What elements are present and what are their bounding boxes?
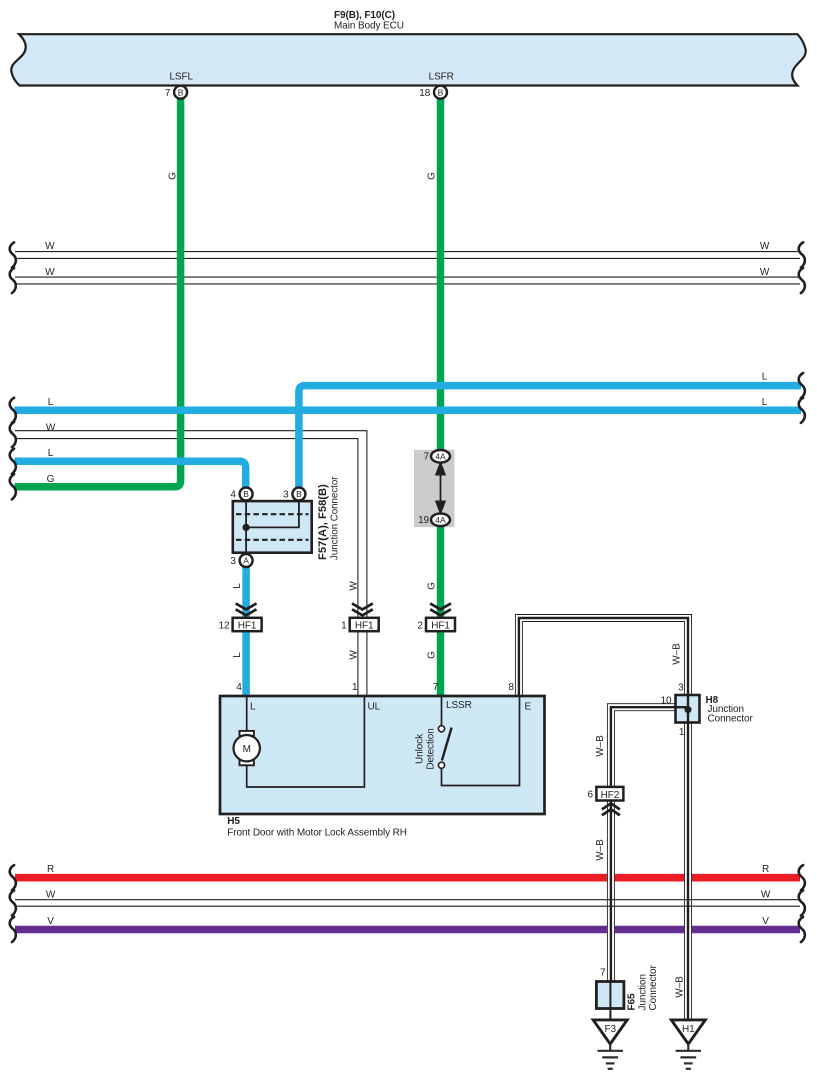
- svg-text:4A: 4A: [435, 515, 446, 525]
- svg-text:L: L: [232, 583, 243, 589]
- svg-text:Detection: Detection: [426, 728, 437, 769]
- svg-text:3: 3: [230, 556, 236, 567]
- junction connector F65: [596, 968, 624, 1020]
- splice HF1 (2): [417, 618, 455, 632]
- svg-text:10: 10: [661, 695, 672, 706]
- svg-text:HF2: HF2: [601, 790, 620, 801]
- svg-text:L: L: [48, 448, 54, 459]
- svg-text:LSSR: LSSR: [446, 700, 472, 711]
- svg-text:F65: F65: [627, 993, 638, 1010]
- pin 3(A) of F57: [230, 554, 252, 567]
- splice HF1 (12): [219, 618, 262, 632]
- splice HF2 (6): [588, 787, 624, 801]
- ground symbol below F3: [598, 1044, 623, 1069]
- svg-text:4: 4: [236, 682, 242, 693]
- svg-text:W–B: W–B: [595, 735, 606, 757]
- svg-text:UL: UL: [368, 702, 381, 713]
- svg-text:L: L: [250, 702, 256, 713]
- connector 4A arrow (between pin 7 and 19): [436, 462, 446, 514]
- svg-text:W: W: [46, 422, 56, 433]
- svg-text:G: G: [168, 172, 179, 180]
- svg-text:W: W: [45, 267, 55, 278]
- svg-text:3: 3: [283, 490, 289, 501]
- motor circuit wire inside door box: [247, 697, 365, 787]
- wire W (top, second): [10, 267, 805, 293]
- svg-text:1: 1: [679, 727, 685, 738]
- svg-text:W: W: [760, 241, 770, 252]
- svg-text:LSFL: LSFL: [169, 72, 193, 83]
- svg-text:L: L: [762, 397, 768, 408]
- wire W-B from door pin 8 (E) up over to H8 then down to H1: [515, 615, 691, 1020]
- svg-text:G: G: [427, 651, 438, 659]
- switch blade: [442, 728, 452, 761]
- svg-text:W: W: [349, 650, 360, 660]
- chevron arrow above HF1 1: [352, 603, 373, 615]
- svg-text:Main Body ECU: Main Body ECU: [334, 20, 404, 31]
- svg-text:G: G: [47, 474, 55, 485]
- pin 7(B) of ECU: [165, 86, 187, 99]
- wire L (upper right cyan, to pin 3B): [299, 371, 805, 489]
- pin 4(B) of F57: [230, 488, 252, 501]
- svg-text:W–B: W–B: [595, 839, 606, 861]
- svg-text:2: 2: [417, 620, 423, 631]
- junction connector H8: [661, 682, 754, 738]
- splice HF1 (1): [341, 618, 379, 632]
- svg-text:Front Door with Motor Lock Ass: Front Door with Motor Lock Assembly RH: [227, 828, 407, 839]
- svg-text:18: 18: [419, 88, 430, 99]
- door lock assembly H5 box: [220, 696, 545, 814]
- wire V (violet, full width): [10, 916, 805, 942]
- wire W (white, full width lower): [10, 890, 805, 916]
- wire G (LSFL green, pin7B down then left to edge): [10, 97, 181, 499]
- wire G (LSFR green, pin18B down to 4A pin): [437, 97, 445, 453]
- wire R (red, full width): [10, 864, 805, 891]
- svg-text:V: V: [762, 916, 769, 927]
- pin 3(B) of F57: [283, 488, 305, 501]
- svg-text:G: G: [427, 582, 438, 590]
- ground triangle F3: [593, 1020, 627, 1044]
- svg-text:R: R: [47, 864, 54, 875]
- svg-text:W: W: [45, 241, 55, 252]
- svg-text:4A: 4A: [435, 452, 446, 462]
- unlock detection switch circuit wire: [442, 697, 520, 786]
- svg-text:F57(A), F58(B): F57(A), F58(B): [317, 484, 329, 560]
- grey highlight box around 4A pins: [414, 450, 455, 527]
- svg-text:Junction Connector: Junction Connector: [330, 476, 341, 560]
- wire L (cyan from pin 3A down to door box pin 4): [232, 567, 246, 697]
- svg-text:L: L: [762, 371, 768, 382]
- svg-text:4: 4: [230, 490, 236, 501]
- switch contact bottom: [438, 762, 444, 768]
- ground symbol below H1: [676, 1044, 701, 1069]
- pin 7(4A) connector: [424, 450, 450, 463]
- svg-text:M: M: [243, 744, 251, 755]
- svg-text:6: 6: [588, 790, 594, 801]
- junction connector F57(A),F58(B) box: [233, 501, 312, 554]
- switch contact top: [438, 726, 444, 732]
- svg-text:Junction: Junction: [638, 974, 649, 1010]
- svg-text:W: W: [46, 890, 56, 901]
- svg-text:H5: H5: [227, 816, 240, 827]
- svg-text:HF1: HF1: [355, 621, 374, 632]
- svg-text:7: 7: [600, 968, 606, 979]
- svg-text:F3: F3: [604, 1024, 616, 1035]
- svg-text:B: B: [243, 489, 249, 499]
- svg-text:E: E: [525, 702, 532, 713]
- wire L (left cyan, to pin 4B): [10, 448, 246, 489]
- svg-text:W–B: W–B: [675, 976, 686, 998]
- white punch-throughs for W-B verticals crossing R and V: [607, 870, 615, 936]
- svg-text:3: 3: [678, 682, 684, 693]
- svg-text:B: B: [438, 87, 444, 97]
- svg-text:R: R: [762, 864, 769, 875]
- svg-text:1: 1: [341, 620, 347, 631]
- pin 18(B) of ECU: [419, 86, 447, 99]
- svg-text:H1: H1: [682, 1024, 695, 1035]
- svg-text:7: 7: [424, 452, 430, 463]
- svg-text:1: 1: [352, 682, 358, 693]
- svg-text:L: L: [232, 652, 243, 658]
- svg-text:L: L: [48, 397, 54, 408]
- wire G (LSFR green, from 4A 19 down to door box pin 7): [427, 172, 441, 696]
- ground triangle H1: [671, 1020, 705, 1044]
- pin 19(4A) connector: [418, 514, 450, 527]
- svg-text:W–B: W–B: [672, 643, 683, 665]
- svg-text:W: W: [760, 267, 770, 278]
- svg-text:HF1: HF1: [238, 621, 257, 632]
- svg-text:LSFR: LSFR: [429, 72, 454, 83]
- svg-text:Connector: Connector: [648, 964, 659, 1010]
- svg-text:B: B: [296, 489, 302, 499]
- motor M: [234, 731, 260, 765]
- ECU F9(B),F10(C) Main Body ECU band: [11, 34, 806, 85]
- svg-text:V: V: [47, 916, 54, 927]
- chevron arrow below HF2 pointing up: [602, 803, 620, 815]
- svg-text:Unlock: Unlock: [415, 733, 426, 764]
- svg-text:W: W: [349, 581, 360, 591]
- svg-text:8: 8: [508, 682, 514, 693]
- chevron arrow above HF1 2: [430, 603, 451, 615]
- wire L (full width cyan): [10, 397, 805, 423]
- svg-text:7: 7: [165, 88, 171, 99]
- wire W (top, first): [10, 241, 805, 268]
- svg-text:B: B: [178, 87, 184, 97]
- wire W-B from H8 pin 10 left and down to HF2 then F65: [595, 704, 688, 1008]
- svg-text:12: 12: [219, 620, 230, 631]
- chevron arrow above HF1 12: [236, 603, 257, 615]
- wire W (middle, to HF1 1 and UL): [10, 422, 367, 696]
- svg-text:HF1: HF1: [431, 621, 450, 632]
- svg-text:Connector: Connector: [708, 713, 754, 724]
- svg-text:7: 7: [433, 682, 439, 693]
- svg-text:19: 19: [418, 515, 429, 526]
- svg-text:G: G: [427, 172, 438, 180]
- svg-text:W: W: [761, 890, 771, 901]
- svg-text:A: A: [243, 556, 249, 566]
